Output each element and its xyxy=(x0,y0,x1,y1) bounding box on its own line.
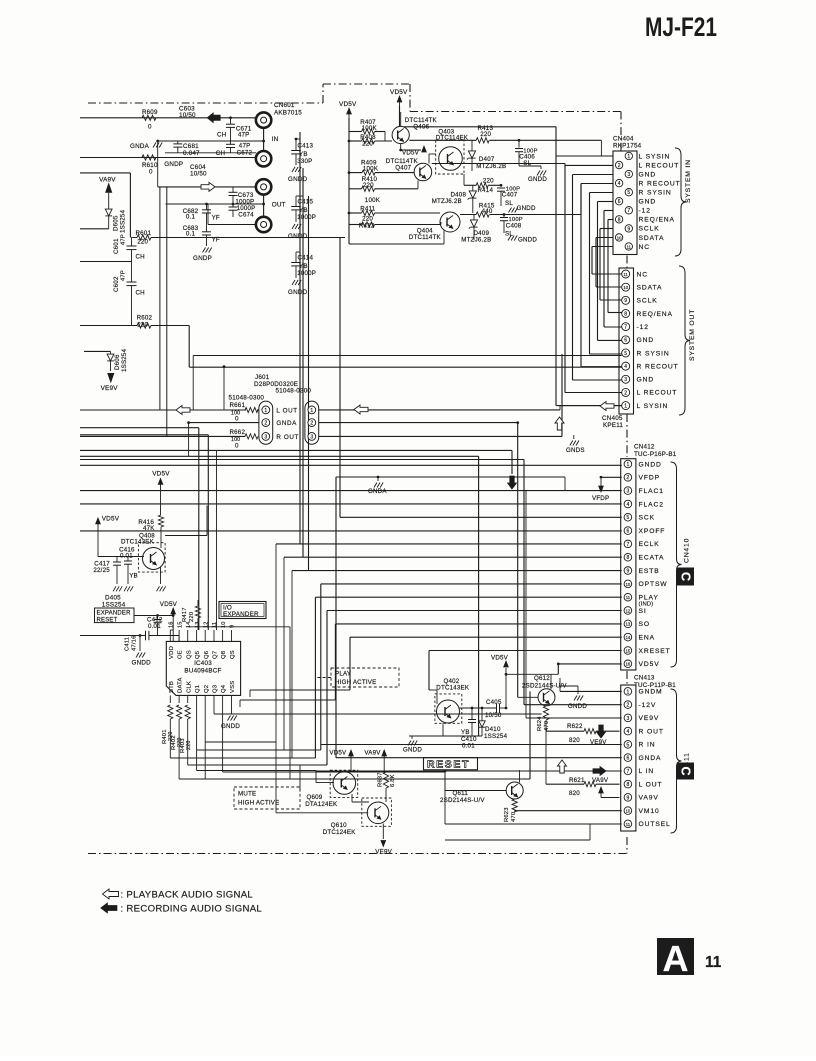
svg-text:MUTE: MUTE xyxy=(238,791,256,798)
wire R610 feed xyxy=(80,157,256,159)
svg-text:(IND): (IND) xyxy=(639,602,654,608)
svg-text:VD5V: VD5V xyxy=(152,471,170,478)
jack IN ring 2 xyxy=(256,151,271,166)
svg-text:470: 470 xyxy=(511,812,517,822)
svg-text:XRESET: XRESET xyxy=(639,648,671,655)
legend recording arrow xyxy=(101,903,117,913)
wire Q404 emitter xyxy=(349,230,444,244)
svg-text:-12V: -12V xyxy=(639,702,657,709)
wire OE feed xyxy=(178,636,180,642)
diode D405 label xyxy=(102,595,126,609)
svg-text:YF: YF xyxy=(212,215,220,222)
svg-text:0.1: 0.1 xyxy=(186,214,196,221)
svg-text:EXPANDER: EXPANDER xyxy=(223,611,259,618)
CN404 pin 9 SCLK xyxy=(625,225,659,233)
svg-text:GND: GND xyxy=(639,171,657,178)
svg-text:REQ/ENA: REQ/ENA xyxy=(637,311,673,318)
svg-text:CN410: CN410 xyxy=(684,538,691,563)
wire R RECOUT long xyxy=(189,366,622,368)
connector CN412 body xyxy=(621,459,636,670)
svg-text:SYSTEM OUT: SYSTEM OUT xyxy=(689,309,696,361)
svg-text:VSS: VSS xyxy=(230,681,236,693)
svg-text:9: 9 xyxy=(627,795,630,801)
svg-text:R661: R661 xyxy=(230,402,246,409)
CN404 pin 5 R SYSIN xyxy=(625,189,671,197)
svg-text:CN405: CN405 xyxy=(602,415,623,422)
svg-text:VD5V: VD5V xyxy=(339,101,357,108)
svg-text:C674: C674 xyxy=(238,212,254,219)
svg-text:0.1: 0.1 xyxy=(186,231,196,238)
label IN xyxy=(272,136,279,143)
svg-text:0.01: 0.01 xyxy=(148,623,161,630)
svg-text:VE9V: VE9V xyxy=(375,849,392,856)
svg-text:QS: QS xyxy=(230,650,236,659)
svg-text:16: 16 xyxy=(626,662,631,667)
wire bus b xyxy=(80,456,479,736)
svg-text:4: 4 xyxy=(627,729,630,735)
svg-text:GNDD: GNDD xyxy=(528,176,547,183)
wire CN412 pin15 XRESET xyxy=(429,650,622,652)
wire CN412 pin16 VD5V xyxy=(558,664,621,674)
svg-text:47P: 47P xyxy=(121,234,127,245)
svg-text:2: 2 xyxy=(310,421,313,427)
svg-text:GNDD: GNDD xyxy=(221,723,240,730)
svg-text:NC: NC xyxy=(639,244,650,251)
svg-text:VD5V: VD5V xyxy=(639,661,660,668)
resistor R637 xyxy=(378,772,397,802)
wire Q612 base xyxy=(518,423,538,698)
CN412 pin 13 SO xyxy=(624,620,650,628)
wire IN feed xyxy=(80,117,256,119)
wire bundle v1 L SYSIN xyxy=(556,127,613,406)
svg-text:AKB7015: AKB7015 xyxy=(274,110,302,117)
svg-text:L SYSIN: L SYSIN xyxy=(637,403,669,410)
svg-text:3: 3 xyxy=(310,434,313,440)
svg-text:DTC124EK: DTC124EK xyxy=(323,829,357,836)
wire CN412 pin7 ECLK xyxy=(276,544,622,742)
svg-text:SL: SL xyxy=(505,231,513,238)
svg-text:5: 5 xyxy=(624,351,627,357)
svg-text:R OUT: R OUT xyxy=(276,434,299,441)
svg-text:GNDD: GNDD xyxy=(403,747,422,754)
svg-text:3: 3 xyxy=(627,716,630,722)
wire expander link xyxy=(134,615,173,617)
resistor R622 xyxy=(546,723,620,744)
svg-text:SCK: SCK xyxy=(639,515,655,522)
IC403 name xyxy=(184,660,221,675)
svg-text:C681: C681 xyxy=(183,143,199,150)
wire Q4 drop xyxy=(222,703,224,772)
CN413 pin 6 GNDA xyxy=(624,754,661,762)
transistor Q610 xyxy=(323,798,392,836)
svg-text:9: 9 xyxy=(230,625,236,628)
wire row1 xyxy=(409,139,476,141)
svg-text:2SD2144S-U/V: 2SD2144S-U/V xyxy=(440,797,485,804)
svg-text:6.8K: 6.8K xyxy=(390,774,396,787)
CN405 pin 2 L RECOUT xyxy=(622,388,678,396)
svg-text:SL: SL xyxy=(505,200,513,207)
svg-text:47K: 47K xyxy=(143,525,155,532)
svg-text:51048-0300: 51048-0300 xyxy=(229,394,265,401)
svg-text:RKP1754: RKP1754 xyxy=(613,143,642,150)
ground GNDP lower xyxy=(193,235,212,262)
svg-text:EXPANDER: EXPANDER xyxy=(97,611,132,617)
svg-text:HIGH ACTIVE: HIGH ACTIVE xyxy=(238,800,279,807)
svg-text:11: 11 xyxy=(627,244,632,249)
svg-text:0: 0 xyxy=(149,169,153,176)
wire XRESET drop xyxy=(429,651,437,705)
wire CN412 pin1 GNDD xyxy=(80,464,622,466)
svg-text:Q4: Q4 xyxy=(221,684,227,693)
diode D410 xyxy=(479,708,508,740)
jack OUT ring 2 xyxy=(256,217,271,232)
svg-text:IN: IN xyxy=(272,136,279,143)
resistor R408 xyxy=(349,134,392,148)
svg-text:7: 7 xyxy=(627,542,630,548)
sheet ref C box upper xyxy=(677,568,694,586)
wire QS to riser xyxy=(188,627,290,779)
capacitor C413 xyxy=(288,139,313,183)
CN412 pin 11 PLAY xyxy=(624,593,659,607)
ground GNDD IC403 xyxy=(221,703,240,730)
svg-text:3: 3 xyxy=(264,434,267,440)
svg-text:6: 6 xyxy=(627,529,630,535)
ground GNDS xyxy=(566,435,585,454)
resistor R609 xyxy=(142,109,158,131)
wire staircase b3 xyxy=(188,764,327,766)
svg-text:L IN: L IN xyxy=(639,768,655,775)
svg-text:820: 820 xyxy=(569,790,580,797)
transistor Q408 label xyxy=(121,533,155,546)
wire R audio feed down xyxy=(166,187,168,437)
wire C674 bus xyxy=(166,203,264,205)
svg-text:L SYSIN: L SYSIN xyxy=(639,153,671,160)
svg-text:10: 10 xyxy=(626,809,631,814)
capacitor C411 xyxy=(125,631,180,651)
connector CN404 body xyxy=(613,151,637,255)
wire CN412 pin4 FLAC2 xyxy=(80,503,622,505)
svg-text:SI: SI xyxy=(639,608,647,615)
resistor R414 xyxy=(464,174,501,194)
resistor R415 xyxy=(460,203,581,218)
svg-text:6: 6 xyxy=(624,338,627,344)
legend playback text xyxy=(121,890,254,901)
svg-text:C407: C407 xyxy=(502,192,518,199)
svg-text:CN404: CN404 xyxy=(613,136,634,143)
CN412 pin 5 SCK xyxy=(624,513,655,521)
svg-text:DATA: DATA xyxy=(178,677,184,693)
wire CN404 pin7 stub xyxy=(604,211,622,328)
svg-text:GNDD: GNDD xyxy=(288,176,308,183)
playback arrow J601 left xyxy=(176,406,190,415)
wire CN412 pin9 ESTB xyxy=(292,571,622,758)
svg-text:C: C xyxy=(678,572,692,581)
svg-text:VFDP: VFDP xyxy=(592,495,609,502)
svg-text:Q6: Q6 xyxy=(204,650,210,659)
resistor R417 xyxy=(182,600,201,630)
label SYSTEM IN xyxy=(685,159,692,203)
resistor R402 xyxy=(171,705,183,779)
wire L SYSIN playback line xyxy=(319,406,622,410)
resistor R407 xyxy=(349,119,385,141)
recording arrow L IN xyxy=(593,767,606,776)
svg-text:J601: J601 xyxy=(255,374,270,381)
wire C601 left xyxy=(80,261,132,263)
transistor Q403 label xyxy=(436,129,469,142)
ground Q408 b xyxy=(124,586,133,591)
wire CN413 pin1 GNDM xyxy=(560,678,622,691)
CN413 pin 8 L OUT xyxy=(624,780,662,788)
svg-text:820: 820 xyxy=(569,737,580,744)
svg-text:0.047: 0.047 xyxy=(183,150,200,157)
svg-text:RESET: RESET xyxy=(427,759,470,771)
zener D409 xyxy=(461,215,491,244)
connector CN412 label xyxy=(634,444,677,458)
svg-text:470: 470 xyxy=(544,721,550,731)
page boundary joint CN404-CN405 xyxy=(626,256,628,269)
svg-text:16: 16 xyxy=(169,621,175,628)
wire L audio feed down xyxy=(159,187,161,410)
ground GNDD Q402 xyxy=(403,736,422,754)
svg-text:VA9V: VA9V xyxy=(592,777,609,784)
svg-text:VD5V: VD5V xyxy=(402,150,420,157)
CN412 pin 8 ECATA xyxy=(624,553,664,561)
svg-text:15: 15 xyxy=(177,621,183,628)
svg-text:47/16: 47/16 xyxy=(132,635,138,651)
transistor Q402 label xyxy=(436,678,470,692)
svg-text:7: 7 xyxy=(627,769,630,775)
capacitor C407 xyxy=(497,187,520,208)
CN404 pin 1 L SYSIN xyxy=(625,152,670,160)
svg-text:1SS254: 1SS254 xyxy=(121,348,128,372)
svg-text:R IN: R IN xyxy=(639,742,656,749)
CN404 pin 7 -12 xyxy=(625,207,651,215)
svg-text:12: 12 xyxy=(626,608,631,613)
capacitor C674 xyxy=(229,204,256,219)
transistor Q406 xyxy=(392,126,409,143)
svg-text:GNDP: GNDP xyxy=(193,255,212,262)
legend recording text xyxy=(121,904,263,915)
title MJ-F21 xyxy=(645,12,717,42)
wire Q2 long xyxy=(179,691,530,779)
svg-text:VD5V: VD5V xyxy=(160,601,178,608)
connector J601 label xyxy=(254,374,311,395)
label CN411 xyxy=(684,752,691,777)
svg-text:1SS254: 1SS254 xyxy=(102,601,126,608)
power VD5V IC403 xyxy=(160,601,178,641)
svg-text:14: 14 xyxy=(626,635,631,640)
jack OUT ring 1 xyxy=(256,179,271,194)
resistor R661 xyxy=(230,402,259,423)
svg-text:10/50: 10/50 xyxy=(179,112,196,119)
CN412 pin 15 XRESET xyxy=(624,647,671,655)
svg-text:OE: OE xyxy=(178,650,184,659)
svg-text:KPE11: KPE11 xyxy=(603,422,623,429)
resistor R662 xyxy=(80,429,258,450)
CN412 pin 10 OPTSW xyxy=(624,580,667,588)
svg-text:VD5V: VD5V xyxy=(329,750,347,757)
CN405 pin 8 REQ/ENA xyxy=(622,309,673,317)
svg-text:R637: R637 xyxy=(378,772,384,787)
resistor R602 xyxy=(80,314,189,367)
svg-text:8: 8 xyxy=(618,217,621,223)
legend playback arrow xyxy=(103,889,119,899)
svg-text:-12: -12 xyxy=(637,324,649,331)
playback arrow mid xyxy=(354,405,368,414)
wire C672 bus xyxy=(165,152,256,154)
svg-text:SCLK: SCLK xyxy=(637,298,658,305)
svg-text:GND: GND xyxy=(639,199,657,206)
svg-text:Q7: Q7 xyxy=(213,651,219,659)
svg-text:VM10: VM10 xyxy=(639,808,660,815)
resistor R401 xyxy=(162,705,174,758)
transistor Q611 xyxy=(440,782,523,804)
wire Q609 base xyxy=(316,770,334,782)
svg-text:VE9V: VE9V xyxy=(639,715,660,722)
svg-text:VA9V: VA9V xyxy=(99,176,116,183)
wire bundle v5 R SYSIN xyxy=(590,193,614,355)
wire CN413 pin10 VM10 xyxy=(515,811,622,813)
svg-text:R414: R414 xyxy=(478,187,494,194)
svg-text:TUC-P16P-B1: TUC-P16P-B1 xyxy=(634,451,677,458)
wire CN413 pin5 R IN xyxy=(321,744,622,746)
playback arrow up GNDS area xyxy=(555,417,564,430)
capacitor C416 xyxy=(119,547,135,585)
wire CN412 pin14 ENA xyxy=(350,637,622,690)
svg-text:R622: R622 xyxy=(567,723,583,730)
svg-text:6: 6 xyxy=(618,199,621,205)
svg-text:R609: R609 xyxy=(142,109,158,116)
svg-text:2: 2 xyxy=(627,703,630,709)
ground GNDD R414 xyxy=(509,205,536,213)
connector J601 left xyxy=(259,401,273,444)
svg-text:CH: CH xyxy=(216,150,225,157)
svg-text:Q609: Q609 xyxy=(307,794,323,801)
brace CN411 xyxy=(671,689,682,833)
svg-text:47P: 47P xyxy=(121,270,127,281)
svg-text:220: 220 xyxy=(189,612,195,622)
CN404 pin 2 L RECOUT xyxy=(615,161,679,169)
CN412 pin 3 FLAC1 xyxy=(624,487,664,495)
svg-text:GNDD: GNDD xyxy=(568,703,587,710)
svg-text:L OUT: L OUT xyxy=(276,407,297,414)
wire L OUT line xyxy=(80,367,259,410)
box I/O EXPANDER xyxy=(219,602,266,619)
resistor R623 xyxy=(504,799,517,822)
svg-text:6: 6 xyxy=(627,756,630,762)
svg-text:BU4094BCF: BU4094BCF xyxy=(184,668,221,675)
svg-text:VD5V: VD5V xyxy=(102,516,120,523)
resistor R410 xyxy=(349,176,418,191)
CN405 pin 7 -12 xyxy=(622,323,649,331)
wire play link xyxy=(317,677,331,679)
CN412 pin 16 VD5V xyxy=(624,660,659,668)
wire bus a xyxy=(80,450,512,630)
CN412 pin 12 SI xyxy=(624,607,647,615)
diode D606 xyxy=(84,348,128,372)
svg-text:IC403: IC403 xyxy=(194,660,212,667)
svg-text:1: 1 xyxy=(264,408,267,414)
ground Q408 c xyxy=(157,567,166,591)
svg-text:A: A xyxy=(663,938,689,979)
CN405 pin 9 SCLK xyxy=(622,296,658,304)
connector CN405 body xyxy=(619,268,634,414)
wire staircase b1 xyxy=(197,750,321,771)
svg-text:13: 13 xyxy=(626,622,631,627)
svg-text:R SYSIN: R SYSIN xyxy=(637,350,670,357)
box EXPANDER RESET xyxy=(95,608,135,623)
connector CN601 label xyxy=(274,102,302,117)
resistor R621 xyxy=(546,731,620,797)
svg-text:C601: C601 xyxy=(113,238,120,254)
wire cap taps xyxy=(296,139,303,252)
transistor Q403 xyxy=(436,140,464,174)
wire CN404 pin11 stub xyxy=(592,247,622,275)
power VD5V upper left xyxy=(152,471,170,516)
brace SYSTEM IN xyxy=(675,148,686,256)
svg-text:4: 4 xyxy=(627,502,630,508)
box MUTE HIGH ACTIVE xyxy=(234,787,300,809)
CN404 pin 6 GND xyxy=(615,198,656,206)
CN413 pin 4 R OUT xyxy=(624,727,664,735)
svg-text:VFDP: VFDP xyxy=(639,475,660,482)
box RESET xyxy=(424,758,478,771)
J601 labels xyxy=(276,407,299,441)
svg-text:R OUT: R OUT xyxy=(639,728,664,735)
CN404 pin 4 R RECOUT xyxy=(615,179,680,187)
svg-text:PLAY: PLAY xyxy=(639,595,659,602)
svg-text:SCLK: SCLK xyxy=(639,226,660,233)
svg-text:0: 0 xyxy=(235,443,239,450)
wire Q402 to Q612 xyxy=(505,673,559,689)
svg-text:R602: R602 xyxy=(137,314,153,321)
svg-text:FLAC1: FLAC1 xyxy=(639,488,664,495)
transistor Q408 xyxy=(138,543,165,572)
svg-text:8: 8 xyxy=(627,555,630,561)
capacitor C603 label xyxy=(179,106,196,120)
svg-text:R417: R417 xyxy=(182,607,188,622)
resistor R409 xyxy=(349,160,414,176)
svg-text:R SYSIN: R SYSIN xyxy=(639,190,672,197)
wire stage3 to bundle xyxy=(580,184,582,215)
svg-text:-12: -12 xyxy=(639,208,651,215)
svg-text:GNDD: GNDD xyxy=(518,237,537,244)
wire OUT feed xyxy=(158,141,256,187)
wire audio pair L xyxy=(80,428,199,630)
page boundary joint CN405-CN412 xyxy=(626,414,628,457)
wire Q402 emitter rail xyxy=(409,723,482,736)
CN412 pin 7 ECLK xyxy=(624,540,659,548)
svg-text:8: 8 xyxy=(624,311,627,317)
svg-text:47P: 47P xyxy=(238,132,250,139)
wire Q611 base xyxy=(445,772,506,791)
wire CN404 pin8 stub xyxy=(608,220,622,313)
wire Q3 right xyxy=(214,703,542,714)
svg-text:10/50: 10/50 xyxy=(485,712,502,719)
svg-text:11: 11 xyxy=(626,595,631,600)
svg-text:3: 3 xyxy=(624,377,627,383)
svg-text:GNDD: GNDD xyxy=(288,289,308,296)
staircase into mute area xyxy=(188,742,300,813)
sheet ref C box lower xyxy=(677,763,694,780)
resistor R403 xyxy=(180,705,192,765)
svg-text:STB: STB xyxy=(169,681,175,693)
power VFDP xyxy=(592,477,622,502)
wire Q611 collector xyxy=(519,770,521,783)
wire Q609-Q610 link xyxy=(352,794,369,802)
CN413 pin 2 -12V xyxy=(624,701,656,709)
svg-text:1: 1 xyxy=(627,154,630,160)
